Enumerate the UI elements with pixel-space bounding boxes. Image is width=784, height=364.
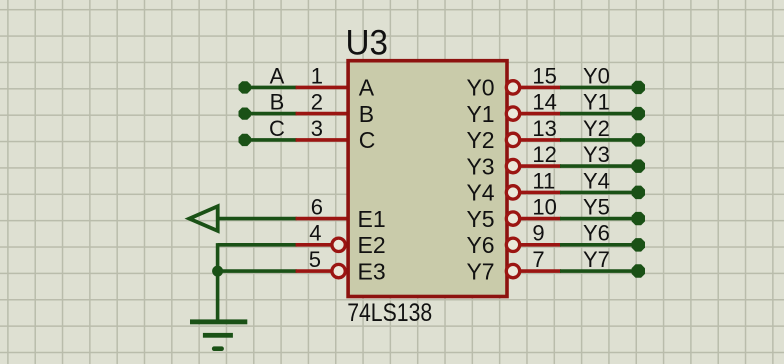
- inverting bubble pin 4: [332, 238, 345, 251]
- svg-text:15: 15: [532, 63, 556, 88]
- terminal dot net Y1: [632, 107, 645, 121]
- terminal dot net Y5: [632, 212, 645, 225]
- svg-text:B: B: [270, 90, 285, 115]
- svg-text:Y0: Y0: [583, 63, 610, 88]
- svg-text:Y6: Y6: [466, 232, 494, 258]
- terminal dot net Y7: [632, 264, 645, 278]
- svg-text:13: 13: [532, 116, 556, 141]
- wire E3 horizontal: [218, 269, 297, 273]
- IC U3 body (74LS138): [348, 61, 507, 297]
- input terminal arrow (E1): [189, 206, 217, 231]
- inverting bubble pin 12: [506, 159, 519, 172]
- wire net Y7: [560, 269, 638, 273]
- svg-text:11: 11: [532, 168, 555, 193]
- svg-text:Y3: Y3: [583, 142, 610, 167]
- terminal dot net Y3: [632, 159, 645, 173]
- terminal dot net B: [239, 108, 251, 120]
- junction dot E3/ground: [212, 266, 223, 277]
- svg-text:Y7: Y7: [583, 247, 610, 272]
- terminal dot net Y6: [632, 238, 645, 252]
- wire net Y3: [560, 164, 638, 168]
- inverting bubble pin 9: [506, 238, 519, 251]
- terminal dot net Y0: [632, 81, 645, 94]
- pin 1 (A) lead: [296, 86, 349, 90]
- pin 6 (E1) lead: [296, 217, 349, 221]
- pin 2 (B) lead: [296, 112, 349, 116]
- svg-text:Y3: Y3: [466, 153, 494, 179]
- inverting bubble pin 14: [506, 107, 519, 120]
- inverting bubble pin 11: [506, 186, 519, 199]
- wire to E1: [218, 217, 297, 221]
- pin 15 (Y0) lead: [520, 86, 561, 90]
- wire net B (left input row): [245, 112, 297, 116]
- inverting bubble pin 5: [332, 264, 345, 277]
- svg-text:7: 7: [532, 247, 544, 272]
- svg-text:Y6: Y6: [583, 221, 610, 246]
- svg-text:10: 10: [532, 195, 556, 220]
- pin 13 (Y2) lead: [520, 138, 561, 142]
- svg-text:E2: E2: [358, 232, 386, 258]
- pin 4 (E2) lead: [296, 243, 334, 247]
- svg-text:Y5: Y5: [466, 206, 494, 232]
- pin 5 (E3) lead: [296, 269, 334, 273]
- terminal dot net Y4: [632, 186, 645, 200]
- svg-text:Y2: Y2: [583, 116, 610, 141]
- terminal dot net C: [239, 134, 251, 146]
- inverting bubble pin 15: [506, 81, 519, 94]
- wire net A (left input row): [245, 86, 297, 90]
- svg-text:C: C: [359, 127, 376, 153]
- svg-text:Y4: Y4: [583, 168, 610, 193]
- pin 10 (Y5) lead: [520, 217, 561, 221]
- wire net Y0: [560, 86, 638, 90]
- svg-text:A: A: [270, 63, 285, 88]
- wire net Y5: [560, 217, 638, 221]
- svg-text:Y0: Y0: [466, 75, 494, 101]
- inverting bubble pin 7: [506, 264, 519, 277]
- wire net Y4: [560, 191, 638, 195]
- pin 14 (Y1) lead: [520, 112, 561, 116]
- inverting bubble pin 13: [506, 133, 519, 146]
- svg-text:4: 4: [309, 221, 321, 246]
- svg-text:Y5: Y5: [583, 195, 610, 220]
- svg-text:E1: E1: [358, 206, 386, 232]
- terminal dot net A: [239, 81, 251, 93]
- wire E2 horizontal: [218, 243, 297, 247]
- wire net C (left input row): [245, 138, 297, 142]
- svg-text:B: B: [359, 101, 374, 127]
- svg-text:3: 3: [311, 116, 323, 141]
- pin 9 (Y6) lead: [520, 243, 561, 247]
- pin 11 (Y4) lead: [520, 191, 561, 195]
- svg-text:12: 12: [532, 142, 556, 167]
- wire E2 vertical down to ground: [216, 243, 220, 320]
- wire net Y2: [560, 138, 638, 142]
- inverting bubble pin 10: [506, 212, 519, 225]
- svg-text:2: 2: [311, 90, 323, 115]
- svg-text:Y4: Y4: [466, 180, 494, 206]
- pin 7 (Y7) lead: [520, 269, 561, 273]
- svg-text:U3: U3: [346, 23, 389, 62]
- svg-text:E3: E3: [358, 258, 386, 284]
- svg-text:C: C: [269, 116, 285, 141]
- svg-text:Y7: Y7: [466, 258, 494, 284]
- pin 12 (Y3) lead: [520, 164, 561, 168]
- terminal dot net Y2: [632, 133, 645, 147]
- svg-text:5: 5: [309, 247, 321, 272]
- svg-text:6: 6: [311, 195, 323, 220]
- svg-text:Y2: Y2: [466, 127, 494, 153]
- svg-text:9: 9: [532, 221, 544, 246]
- svg-text:A: A: [359, 75, 375, 101]
- ground: [190, 319, 247, 351]
- pin 3 (C) lead: [296, 138, 349, 142]
- svg-text:74LS138: 74LS138: [347, 299, 432, 327]
- svg-text:Y1: Y1: [466, 101, 494, 127]
- svg-text:14: 14: [532, 90, 556, 115]
- wire net Y1: [560, 112, 638, 116]
- svg-text:1: 1: [311, 63, 323, 88]
- wire net Y6: [560, 243, 638, 247]
- svg-text:Y1: Y1: [583, 90, 610, 115]
